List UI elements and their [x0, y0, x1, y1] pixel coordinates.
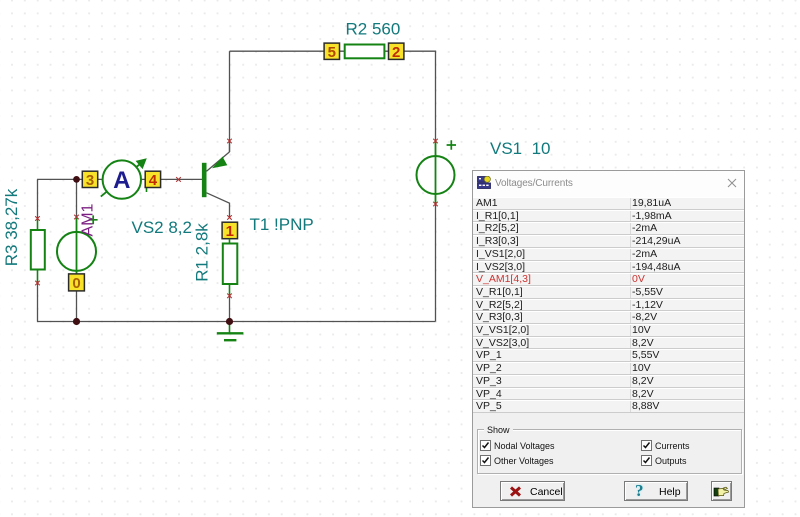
junction dot ground rail / R1: [226, 318, 233, 325]
checkbox Other Voltages: [479, 455, 481, 467]
node 2: [389, 43, 404, 61]
checkbox Nodal Voltages: [479, 440, 481, 452]
table row I_R3[0,3]: [473, 235, 744, 248]
wire: emitter vertical: [229, 51, 231, 152]
wire: top horizontal from emitter corner to node 5: [230, 50, 325, 52]
node 5: [324, 43, 339, 61]
table row VP_2: [473, 362, 744, 375]
terminal marker VS2 top: [74, 215, 79, 220]
svg-text:1: 1: [226, 223, 234, 240]
table row I_R2[5,2]: [473, 222, 744, 235]
terminal marker VS1 bottom: [433, 202, 438, 207]
table row V_VS2[3,0]: [473, 337, 744, 350]
terminal marker R3 top: [35, 216, 40, 221]
table row V_R1[0,1]: [473, 286, 744, 299]
terminal marker VS1 top: [433, 139, 438, 144]
svg-text:T1 !PNP: T1 !PNP: [250, 215, 314, 234]
table row VP_4: [473, 388, 744, 401]
svg-text:VS2 8,2: VS2 8,2: [132, 218, 193, 237]
terminal marker R1 bottom: [227, 294, 232, 299]
transistor T1 (PNP): [202, 141, 230, 218]
wire: left horizontal to node 3: [37, 178, 82, 180]
wire: below R1 to ground rail: [229, 296, 231, 322]
resistor R2: [339, 45, 389, 59]
svg-text:0: 0: [72, 275, 80, 292]
wire: node 4 to transistor base: [161, 178, 202, 180]
svg-text:R2 560: R2 560: [346, 20, 401, 39]
wire: left vertical upper (to R3 top): [37, 179, 39, 218]
terminal marker emitter: [227, 139, 232, 144]
node 3: [82, 171, 97, 189]
wire: left vertical lower (R3 bottom to ground rail): [37, 283, 39, 322]
wire: bottom ground rail: [37, 321, 436, 323]
button Help: [624, 481, 688, 501]
dialog title bar: [473, 171, 744, 197]
terminal marker R3 bottom: [35, 281, 40, 286]
dialog icon: [477, 176, 491, 189]
svg-text:AM1: AM1: [80, 203, 97, 236]
resistor R3: [31, 219, 45, 284]
svg-text:A: A: [113, 167, 130, 194]
svg-text:4: 4: [149, 172, 158, 189]
button Cancel: [500, 481, 565, 501]
node 1: [222, 222, 237, 240]
svg-text:2: 2: [392, 44, 400, 61]
table row I_R1[0,1]: [473, 210, 744, 223]
table row VP_3: [473, 375, 744, 388]
voltage source VS1: [417, 140, 457, 204]
junction dot at node 3: [73, 176, 80, 183]
table row V_R3[0,3]: [473, 311, 744, 324]
ground: [217, 322, 244, 341]
button export (pointing hand): [711, 481, 732, 501]
svg-text:R3 38,27k: R3 38,27k: [2, 188, 21, 266]
table row AM1: [473, 197, 744, 210]
svg-text:5: 5: [328, 44, 336, 61]
table row V_R2[5,2]: [473, 299, 744, 312]
node 4: [145, 171, 160, 189]
table row VP_5: [473, 400, 744, 413]
node 0: [69, 274, 85, 292]
terminal marker collector: [227, 215, 232, 220]
wire: VS1 bottom to ground rail: [435, 204, 437, 322]
close button: [727, 178, 737, 188]
svg-text:3: 3: [86, 172, 94, 189]
wire: node 2 to top-right corner then down to VS1: [404, 51, 436, 141]
checkbox Currents: [640, 440, 642, 452]
table row V_VS1[2,0]: [473, 324, 744, 337]
junction dot ground rail / VS2: [73, 318, 80, 325]
ammeter AM1: [98, 158, 147, 199]
svg-text:R1 2,8k: R1 2,8k: [193, 223, 212, 282]
table row I_VS1[2,0]: [473, 248, 744, 261]
results table: [473, 170, 744, 172]
wire: junction to VS2 top: [76, 179, 78, 217]
svg-text:VS1 10: VS1 10: [490, 139, 551, 158]
terminal marker base: [176, 177, 181, 182]
wire: node 0 down to ground rail: [76, 291, 78, 322]
table row V_AM1[4,3]: [473, 273, 744, 286]
dialog window Voltages/Currents: [472, 170, 745, 508]
group box Show: [477, 429, 742, 474]
checkbox Outputs: [640, 455, 642, 467]
table row I_VS2[3,0]: [473, 261, 744, 274]
table row VP_1: [473, 349, 744, 362]
resistor R1: [223, 239, 238, 296]
voltage source VS2: [57, 215, 98, 274]
